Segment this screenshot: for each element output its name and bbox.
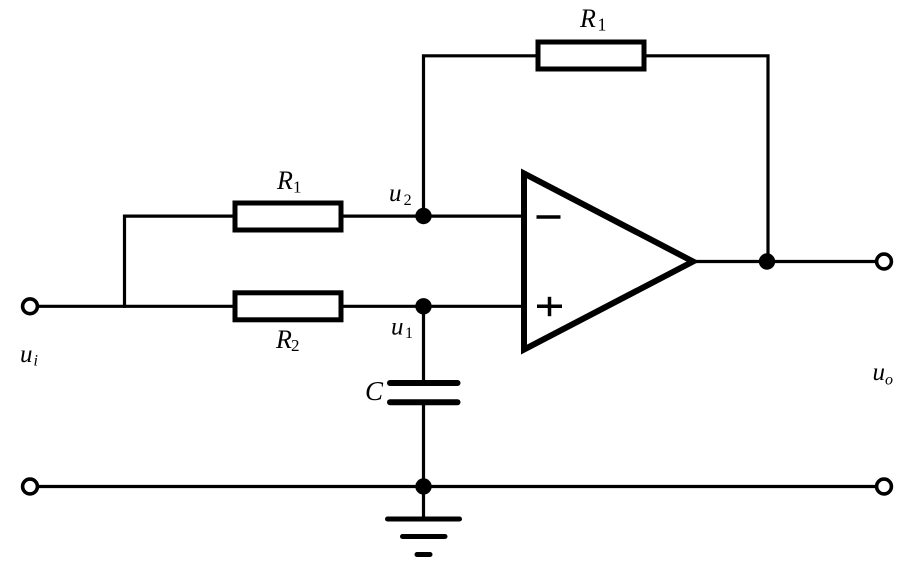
- svg-text:1: 1: [405, 325, 413, 342]
- svg-text:1: 1: [293, 178, 302, 197]
- svg-text:u: u: [20, 341, 33, 368]
- svg-text:u: u: [389, 180, 402, 207]
- svg-text:o: o: [885, 372, 893, 389]
- svg-text:C: C: [365, 376, 384, 406]
- svg-text:2: 2: [291, 336, 300, 355]
- svg-text:i: i: [34, 353, 38, 370]
- svg-text:1: 1: [598, 15, 607, 35]
- svg-text:R: R: [579, 4, 596, 33]
- svg-text:2: 2: [404, 192, 412, 209]
- svg-text:R: R: [276, 166, 293, 195]
- svg-text:R: R: [275, 325, 292, 354]
- svg-text:u: u: [873, 359, 886, 386]
- svg-text:u: u: [391, 313, 404, 340]
